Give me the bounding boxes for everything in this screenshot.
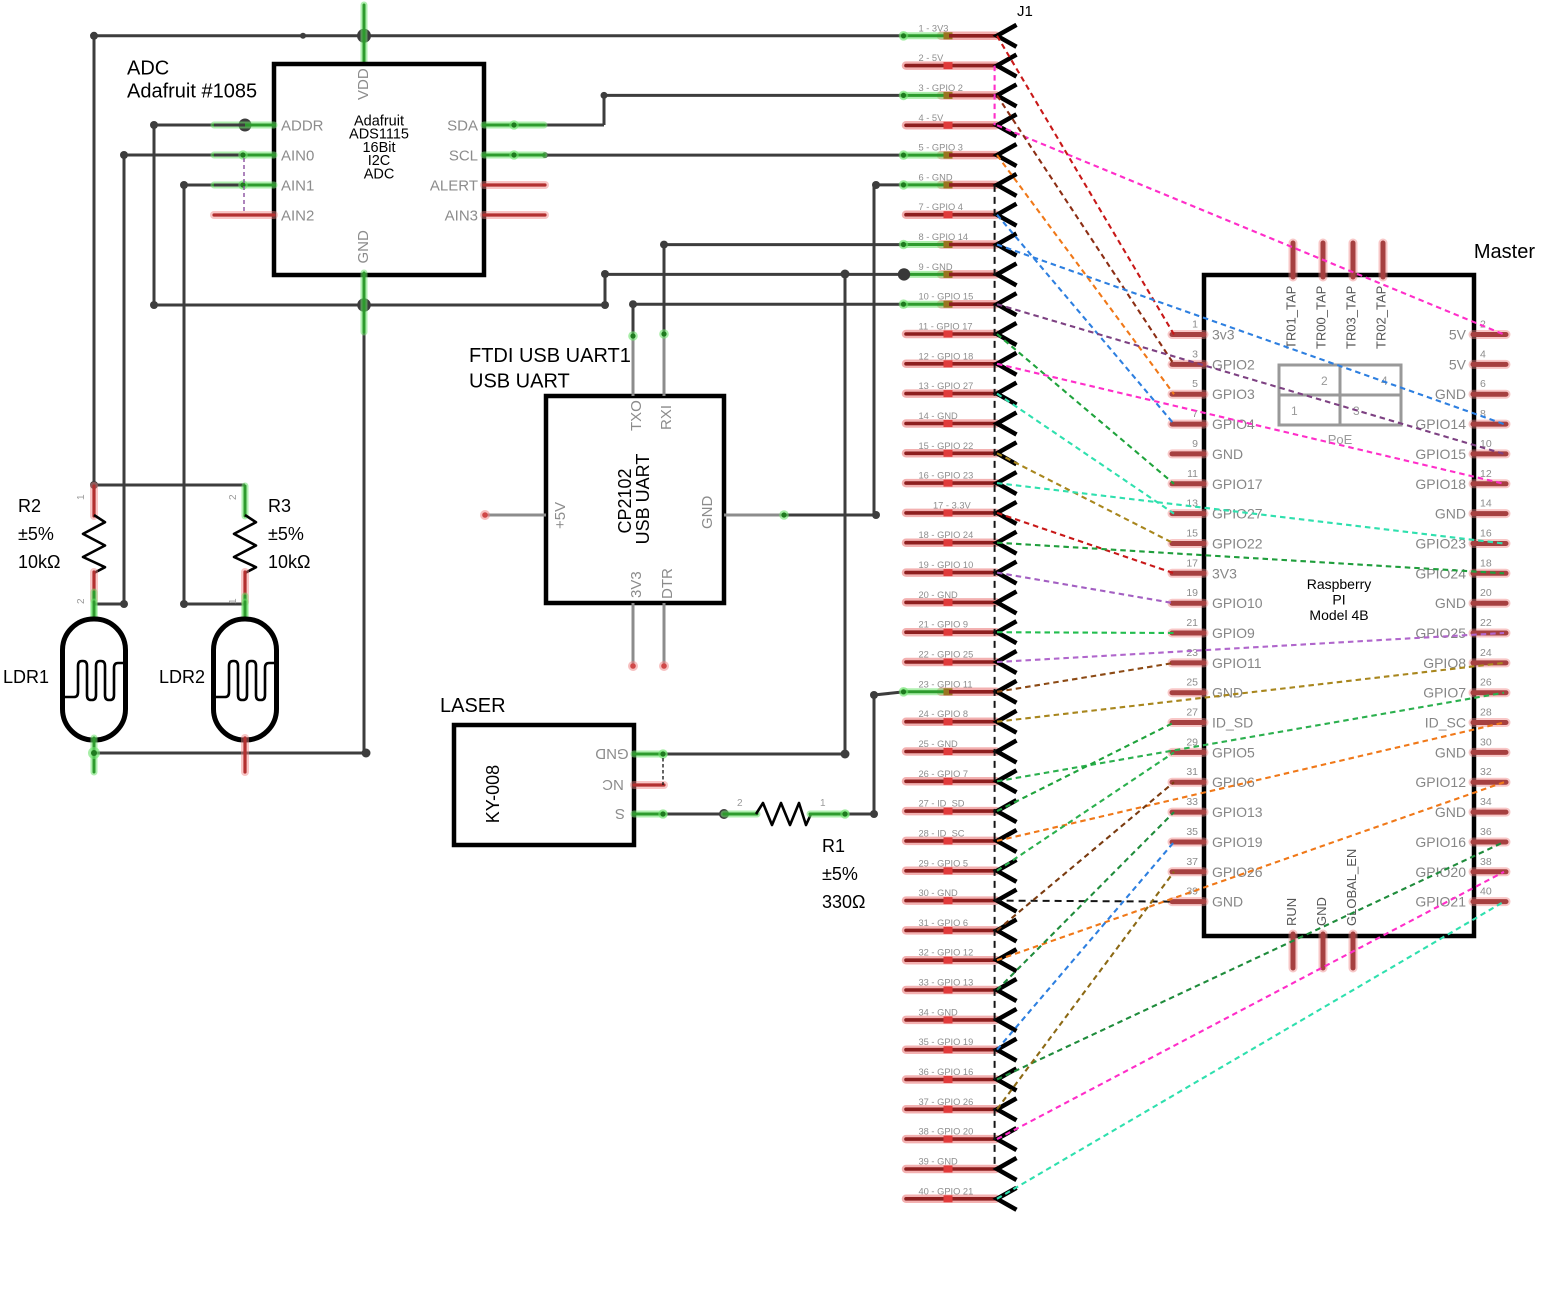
svg-text:1: 1	[228, 598, 239, 604]
svg-text:RXI: RXI	[658, 405, 675, 430]
svg-text:22: 22	[1480, 617, 1492, 629]
PoE header	[1279, 365, 1401, 425]
svg-text:14: 14	[1480, 498, 1492, 510]
wire AIN1 net: ADC AIN1 to LDR2/R3 junction	[184, 184, 240, 187]
UART pin DTR	[663, 603, 666, 664]
ratsnest GPIO24 J1-18 to RPi-18	[997, 543, 1504, 574]
ADC VDD pin	[361, 5, 368, 66]
svg-text:2: 2	[1321, 374, 1328, 388]
svg-text:LDR2: LDR2	[159, 667, 205, 687]
svg-text:NC: NC	[602, 776, 624, 793]
J1 pin 9 (GND)	[898, 262, 1017, 286]
svg-text:GPIO20: GPIO20	[1415, 864, 1466, 880]
svg-text:SDA: SDA	[447, 118, 478, 135]
wire SDA net: ADC SDA to J1-3	[544, 124, 604, 127]
svg-text:AIN3: AIN3	[445, 208, 478, 225]
RPi pin 10 (GPIO15)	[1415, 438, 1506, 462]
RPi pin 13 (GPIO27)	[1172, 498, 1263, 522]
svg-text:GPIO25: GPIO25	[1415, 625, 1466, 641]
svg-text:GND: GND	[1314, 897, 1329, 926]
junction ADDR	[239, 119, 252, 132]
svg-text:GPIO12: GPIO12	[1415, 774, 1466, 790]
svg-text:33: 33	[1186, 796, 1198, 808]
ADC pin AIN0 leg	[214, 152, 274, 159]
junction LDR GND	[362, 749, 371, 758]
RPi pin 21 (GPIO9)	[1172, 617, 1255, 641]
ratsnest AIN0-AIN2	[243, 158, 245, 214]
svg-text:R1: R1	[822, 836, 845, 856]
svg-text:RUN: RUN	[1284, 898, 1299, 926]
svg-text:5V: 5V	[1449, 327, 1467, 343]
RPi pin GLOBAL_EN	[1344, 849, 1359, 968]
svg-text:LASER: LASER	[440, 695, 506, 717]
wire laser S / R1 to J1-23	[663, 813, 724, 816]
svg-text:±5%: ±5%	[268, 524, 304, 544]
RPi pin 23 (GPIO11)	[1172, 647, 1262, 671]
RPi pin 31 (GPIO6)	[1172, 766, 1255, 790]
ratsnest GPIO16 J1-36 to RPi-36	[997, 842, 1504, 1080]
svg-text:ID_SD: ID_SD	[1212, 715, 1253, 731]
J1 pin 31 (GPIO6)	[906, 918, 1017, 942]
RPi pin 25 (GND)	[1172, 677, 1243, 701]
J1 pin 36 (GPIO16)	[906, 1067, 1017, 1091]
ratsnest 3V3 J1-1 to RPi-1	[997, 36, 1174, 335]
J1 pin 33 (GPIO13)	[906, 978, 1017, 1002]
J1 pin 27 (ID_SD)	[906, 799, 1017, 823]
svg-text:2: 2	[228, 494, 239, 500]
wire 3V3 net: J1-1 to ADC VDD and R2/R3 tops	[94, 34, 904, 37]
RPi pin 16 (GPIO23)	[1415, 528, 1506, 552]
svg-text:+5V: +5V	[552, 502, 569, 529]
svg-text:GPIO11: GPIO11	[1212, 655, 1262, 671]
svg-text:24: 24	[1480, 647, 1492, 659]
ratsnest GPIO18 J1-12 to RPi-12	[997, 364, 1504, 484]
svg-text:31: 31	[1186, 766, 1198, 778]
J1 pin 15 (GPIO22)	[906, 441, 1017, 465]
svg-text:Master: Master	[1474, 241, 1535, 263]
svg-text:2: 2	[76, 598, 87, 604]
svg-text:TXO: TXO	[628, 400, 645, 431]
svg-text:GND: GND	[1212, 446, 1243, 462]
ratsnest GPIO15 J1-10 to RPi-10	[997, 304, 1504, 454]
ratsnest GPIO10 J1-19 to RPi-19	[997, 573, 1174, 604]
svg-text:CP2102: CP2102	[615, 468, 635, 533]
svg-text:10kΩ: 10kΩ	[268, 552, 310, 572]
J1 pin 28 (ID_SC)	[906, 828, 1017, 852]
svg-text:TR01_TAP: TR01_TAP	[1284, 286, 1299, 349]
ratsnest GPIO20 J1-38 to RPi-38	[997, 872, 1504, 1139]
J1 pin 3 (GPIO2)	[899, 83, 1017, 107]
ratsnest GPIO25 J1-22 to RPi-22	[997, 633, 1504, 662]
J1 pin 8 (GPIO14)	[899, 232, 1017, 256]
svg-text:ADC: ADC	[364, 166, 395, 182]
svg-text:SCL: SCL	[449, 148, 478, 165]
RPi pin 8 (GPIO14)	[1415, 408, 1506, 432]
svg-text:11: 11	[1187, 468, 1198, 480]
ratsnest GPIO6 J1-31 to RPi-31	[997, 782, 1174, 930]
svg-text:Adafruit #1085: Adafruit #1085	[127, 81, 257, 103]
RPi pin 40 (GPIO21)	[1415, 886, 1506, 910]
svg-text:21: 21	[1186, 617, 1198, 629]
svg-text:40: 40	[1480, 886, 1492, 898]
svg-text:19: 19	[1186, 587, 1198, 599]
J1 pin 10 (GPIO15)	[899, 292, 1017, 316]
RPi pin 26 (GPIO7)	[1423, 677, 1506, 701]
svg-text:DTR: DTR	[659, 568, 676, 599]
svg-text:30: 30	[1480, 736, 1492, 748]
svg-text:28: 28	[1480, 707, 1492, 719]
svg-text:23: 23	[1186, 647, 1198, 659]
svg-text:GND: GND	[595, 745, 629, 762]
RPi pin 12 (GPIO18)	[1415, 468, 1506, 492]
photoresistor LDR2	[242, 602, 249, 620]
J1 pin 12 (GPIO18)	[906, 351, 1017, 375]
op-amp U-ADC box ADS1115	[274, 64, 484, 275]
svg-text:AIN2: AIN2	[281, 208, 314, 225]
junction laser S	[719, 809, 729, 819]
svg-text:17: 17	[1186, 557, 1198, 569]
ADC pin AIN2 stub	[214, 211, 274, 219]
wire RXI net: UART RXI to J1-8	[663, 245, 666, 334]
svg-text:ID_SC: ID_SC	[1425, 715, 1466, 731]
ratsnest GPIO11 J1-23 to RPi-23	[997, 663, 1174, 692]
svg-text:GPIO23: GPIO23	[1415, 536, 1466, 552]
J1 pin 2 (5V)	[906, 53, 1017, 77]
svg-text:±5%: ±5%	[822, 864, 858, 884]
resistor R3	[242, 486, 249, 516]
svg-text:GPIO14: GPIO14	[1415, 416, 1466, 432]
ratsnest GPIO8 J1-24 to RPi-24	[997, 663, 1504, 722]
svg-text:GPIO15: GPIO15	[1415, 446, 1466, 462]
UART pin GND	[724, 514, 784, 517]
junction GND-laser	[841, 270, 850, 279]
RPi pin 32 (GPIO12)	[1415, 766, 1506, 790]
svg-text:9: 9	[1192, 438, 1198, 450]
junction VDD	[357, 29, 371, 43]
svg-text:GND: GND	[1212, 894, 1243, 910]
J1 pin 13 (GPIO27)	[906, 381, 1017, 405]
ratsnest ID_SC J1-28 to RPi-28	[997, 723, 1504, 841]
svg-text:VDD: VDD	[355, 68, 372, 100]
UART pin TXO	[632, 336, 635, 396]
J1 pin 18 (GPIO24)	[906, 530, 1017, 554]
J1 pin 16 (GPIO23)	[906, 471, 1017, 495]
RPi pin TR03_TAP	[1344, 243, 1359, 349]
photoresistor LDR1	[91, 602, 98, 620]
J1 pin 35 (GPIO19)	[906, 1037, 1017, 1061]
svg-text:ALERT: ALERT	[430, 178, 478, 195]
RPi pin 6 (GND)	[1435, 378, 1506, 402]
J1 pin 40 (GPIO21)	[906, 1186, 1017, 1210]
svg-text:GPIO9: GPIO9	[1212, 625, 1255, 641]
laser pin GND leg	[634, 751, 664, 758]
svg-text:GND: GND	[1435, 804, 1466, 820]
J1 pin 32 (GPIO12)	[906, 948, 1017, 972]
svg-text:18: 18	[1480, 557, 1492, 569]
J1 pin 23 (GPIO11)	[899, 679, 1017, 703]
resistor R1	[724, 811, 757, 818]
svg-text:1: 1	[76, 494, 87, 500]
svg-text:J1: J1	[1017, 3, 1033, 20]
ratsnest GPIO9 J1-21 to RPi-21	[997, 631, 1174, 634]
wire GND net: ADDR to J1-9, ADC GND, laser GND, UART GND	[154, 124, 243, 127]
svg-text:USB UART: USB UART	[633, 454, 653, 545]
svg-text:16: 16	[1480, 528, 1492, 540]
J1 pin 26 (GPIO7)	[906, 769, 1017, 793]
ADC pin SDA leg	[484, 122, 544, 129]
svg-text:36: 36	[1480, 826, 1492, 838]
svg-text:Raspberry: Raspberry	[1307, 576, 1372, 592]
svg-text:3V3: 3V3	[628, 571, 645, 598]
RPi pin 7 (GPIO4)	[1172, 408, 1255, 432]
svg-text:6: 6	[1480, 378, 1486, 390]
J1 pin 17 (3.3V)	[906, 500, 1017, 524]
RPi pin 15 (GPIO22)	[1172, 528, 1263, 552]
svg-text:ADDR: ADDR	[281, 118, 324, 135]
svg-text:GPIO10: GPIO10	[1212, 595, 1263, 611]
RPi pin 20 (GND)	[1435, 587, 1506, 611]
svg-text:1: 1	[1192, 319, 1198, 331]
ADC pin AIN1 leg	[214, 182, 274, 189]
wire TXO net: UART TXO to J1-10	[632, 304, 635, 336]
ratsnest GPIO4 J1-7 to RPi-7	[997, 215, 1174, 424]
svg-text:GPIO7: GPIO7	[1423, 685, 1466, 701]
J1 pin 11 (GPIO17)	[906, 322, 1017, 346]
RPi pin 11 (GPIO17)	[1172, 468, 1263, 492]
svg-text:32: 32	[1480, 766, 1492, 778]
svg-text:R3: R3	[268, 496, 291, 516]
svg-text:GPIO3: GPIO3	[1212, 386, 1255, 402]
wire AIN0 net: ADC AIN0 to LDR1/R2 junction	[124, 154, 240, 157]
J1 pin 25 (GND)	[906, 739, 1017, 763]
RPi pin 39 (GND)	[1172, 886, 1243, 910]
svg-text:27: 27	[1186, 707, 1198, 719]
ratsnest GPIO3 J1-5 to RPi-5	[997, 155, 1174, 394]
svg-text:TR03_TAP: TR03_TAP	[1344, 286, 1359, 349]
RPi pin 30 (GND)	[1435, 736, 1506, 760]
ratsnest GPIO19 J1-35 to RPi-35	[997, 842, 1174, 1050]
svg-text:25: 25	[1186, 677, 1198, 689]
UART U2 box CP2102	[546, 396, 724, 603]
ADC pin SCL leg	[484, 152, 544, 159]
laser module KY-008 box	[454, 725, 634, 845]
RPi pin 5 (GPIO3)	[1172, 378, 1255, 402]
J1 pin 7 (GPIO4)	[906, 202, 1017, 226]
ratsnest GPIO23 J1-16 to RPi-16	[997, 483, 1504, 543]
ratsnest GPIO21 J1-40 to RPi-40	[997, 902, 1504, 1199]
svg-text:Model 4B: Model 4B	[1309, 607, 1368, 623]
ratsnest 3.3V J1-17 to RPi-17	[997, 513, 1174, 573]
svg-text:AIN0: AIN0	[281, 148, 314, 165]
svg-text:1: 1	[820, 798, 826, 809]
RPi pin 36 (GPIO16)	[1415, 826, 1506, 850]
resistor R2	[90, 486, 98, 516]
svg-text:35: 35	[1186, 826, 1198, 838]
svg-text:330Ω: 330Ω	[822, 892, 866, 912]
RPi pin 9 (GND)	[1172, 438, 1243, 462]
svg-text:PI: PI	[1332, 592, 1345, 608]
RPi pin 14 (GND)	[1435, 498, 1506, 522]
RPi pin 29 (GPIO5)	[1172, 736, 1255, 760]
svg-text:USB UART: USB UART	[469, 371, 570, 393]
J1 pin 30 (GND)	[906, 888, 1017, 912]
junction ADC GND	[357, 298, 371, 312]
svg-text:GPIO13: GPIO13	[1212, 804, 1263, 820]
Raspberry Pi U3 box	[1204, 275, 1474, 936]
J1 pin 24 (GPIO8)	[906, 709, 1017, 733]
RPi pin 18 (GPIO24)	[1415, 557, 1506, 581]
svg-text:ADC: ADC	[127, 58, 169, 80]
svg-text:GPIO22: GPIO22	[1212, 536, 1263, 552]
svg-text:34: 34	[1480, 796, 1492, 808]
RPi pin 28 (ID_SC)	[1425, 707, 1506, 731]
svg-text:15: 15	[1186, 528, 1198, 540]
ratsnest GPIO12 J1-32 to RPi-32	[997, 782, 1504, 960]
laser pin NC stub	[634, 781, 664, 789]
svg-text:GND: GND	[1435, 595, 1466, 611]
svg-text:38: 38	[1480, 856, 1492, 868]
svg-text:LDR1: LDR1	[3, 667, 49, 687]
J1 pin 39 (GND)	[906, 1157, 1017, 1181]
svg-text:5: 5	[1192, 378, 1198, 390]
RPi pin 37 (GPIO26)	[1172, 856, 1263, 880]
svg-text:GPIO21: GPIO21	[1415, 894, 1466, 910]
RPi pin 35 (GPIO19)	[1172, 826, 1263, 850]
J1 pin 4 (5V)	[906, 113, 1017, 137]
RPi pin 22 (GPIO25)	[1415, 617, 1506, 641]
RPi pin 33 (GPIO13)	[1172, 796, 1263, 820]
svg-text:GPIO18: GPIO18	[1415, 476, 1466, 492]
RPi pin TR01_TAP	[1284, 243, 1299, 349]
svg-text:2: 2	[737, 798, 743, 809]
wire SCL net: ADC SCL to J1-5	[545, 154, 904, 157]
svg-text:±5%: ±5%	[18, 524, 54, 544]
J1 pin 20 (GND)	[906, 590, 1017, 614]
UART pin RXI	[663, 334, 666, 396]
laser pin S leg	[634, 811, 664, 818]
ratsnest GPIO13 J1-33 to RPi-33	[997, 812, 1174, 990]
ADC pin ADDR leg	[214, 122, 274, 129]
svg-text:10kΩ: 10kΩ	[18, 552, 60, 572]
ratsnest GPIO27 J1-13 to RPi-13	[997, 394, 1174, 514]
svg-text:TR02_TAP: TR02_TAP	[1374, 286, 1389, 349]
ratsnest GPIO17 J1-11 to RPi-11	[997, 334, 1174, 484]
svg-text:GND: GND	[1435, 506, 1466, 522]
svg-text:GPIO19: GPIO19	[1212, 834, 1263, 850]
ratsnest ID_SD J1-27 to RPi-27	[997, 723, 1174, 812]
ADC pin ALERT stub	[484, 181, 545, 189]
RPi pin 38 (GPIO20)	[1415, 856, 1506, 880]
J1 pin 29 (GPIO5)	[906, 858, 1017, 882]
RPi pin 17 (3V3)	[1172, 557, 1237, 581]
svg-text:GND: GND	[1435, 386, 1466, 402]
svg-text:GND: GND	[1212, 685, 1243, 701]
RPi pin RUN	[1284, 898, 1299, 968]
svg-text:3V3: 3V3	[1212, 565, 1237, 581]
svg-text:GND: GND	[355, 230, 372, 264]
UART pin 3V3	[632, 603, 635, 664]
svg-text:GPIO17: GPIO17	[1212, 476, 1263, 492]
svg-text:GPIO16: GPIO16	[1415, 834, 1466, 850]
ratsnest GPIO26 J1-37 to RPi-37	[997, 872, 1174, 1110]
UART pin +5V	[485, 514, 546, 517]
ratsnest GPIO2 J1-3 to RPi-3	[997, 95, 1174, 364]
RPi pin 34 (GND)	[1435, 796, 1506, 820]
svg-text:GND: GND	[1435, 744, 1466, 760]
J1 pin 14 (GND)	[906, 411, 1017, 435]
ratsnest laser GND-NC	[662, 758, 664, 785]
svg-text:KY-008: KY-008	[483, 765, 503, 823]
svg-text:37: 37	[1186, 856, 1198, 868]
svg-text:S: S	[615, 805, 625, 822]
RPi pin 1 (3v3)	[1172, 319, 1235, 343]
svg-text:AIN1: AIN1	[281, 178, 314, 195]
J1 pin 1 (3V3)	[899, 23, 1017, 47]
ratsnest GND bus J1-6 to J1-39	[994, 185, 996, 1169]
ratsnest GPIO14 J1-8 to RPi-8	[997, 245, 1504, 425]
J1 pin 34 (GND)	[906, 1007, 1017, 1031]
svg-text:3v3: 3v3	[1212, 327, 1235, 343]
svg-text:3: 3	[1192, 348, 1198, 360]
RPi pin 3 (GPIO2)	[1172, 348, 1255, 372]
RPi pin 2 (5V)	[1449, 319, 1506, 343]
RPi pin 27 (ID_SD)	[1172, 707, 1253, 731]
svg-text:TR00_TAP: TR00_TAP	[1314, 286, 1329, 349]
svg-text:GND: GND	[699, 496, 716, 530]
svg-text:GPIO26: GPIO26	[1212, 864, 1263, 880]
svg-text:4: 4	[1480, 348, 1486, 360]
svg-text:1: 1	[1291, 404, 1298, 418]
ratsnest GND J1-30 to RPi-39	[995, 901, 1174, 902]
J1 pin 37 (GPIO26)	[906, 1097, 1017, 1121]
ADC GND pin leg	[361, 273, 368, 332]
J1 pin 22 (GPIO25)	[906, 650, 1017, 674]
svg-text:5V: 5V	[1449, 356, 1467, 372]
J1 pin 21 (GPIO9)	[906, 620, 1017, 644]
J1 pin 6 (GND)	[899, 172, 1017, 196]
RPi pin 4 (5V)	[1449, 348, 1506, 372]
svg-text:R2: R2	[18, 496, 41, 516]
ADC pin AIN3 stub	[484, 211, 545, 219]
ratsnest GPIO22 J1-15 to RPi-15	[997, 453, 1174, 543]
ratsnest 5V J1-4 to RPi-2	[997, 125, 1504, 334]
RPi pin TR00_TAP	[1314, 243, 1329, 349]
ratsnest GPIO5 J1-29 to RPi-29	[997, 752, 1174, 870]
RPi pin TR02_TAP	[1374, 243, 1389, 349]
ratsnest 5V J1-2 to J1-4	[994, 66, 996, 126]
RPi pin 24 (GPIO8)	[1423, 647, 1506, 671]
svg-text:39: 39	[1186, 886, 1198, 898]
svg-text:20: 20	[1480, 587, 1492, 599]
RPi pin GND	[1314, 897, 1329, 968]
J1 pin 5 (GPIO3)	[899, 143, 1017, 167]
J1 pin 38 (GPIO20)	[906, 1127, 1017, 1151]
ratsnest GPIO7 J1-26 to RPi-26	[997, 693, 1504, 782]
svg-text:26: 26	[1480, 677, 1492, 689]
svg-text:GPIO24: GPIO24	[1415, 565, 1466, 581]
svg-text:GPIO5: GPIO5	[1212, 744, 1255, 760]
RPi pin 19 (GPIO10)	[1172, 587, 1263, 611]
J1 pin 19 (GPIO10)	[906, 560, 1017, 584]
svg-text:FTDI USB UART1: FTDI USB UART1	[469, 345, 631, 367]
